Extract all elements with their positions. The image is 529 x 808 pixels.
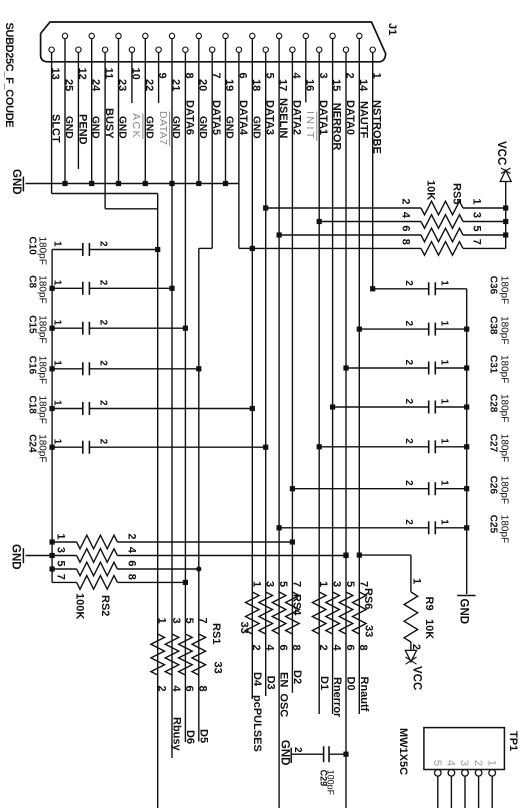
- svg-text:C15: C15: [27, 315, 38, 334]
- svg-text:5: 5: [431, 760, 443, 766]
- svg-text:C31: C31: [488, 355, 499, 374]
- svg-text:7: 7: [471, 239, 483, 245]
- svg-text:J1: J1: [386, 23, 398, 35]
- svg-text:VCC: VCC: [495, 141, 507, 165]
- svg-text:180pF: 180pF: [499, 355, 510, 383]
- svg-text:1: 1: [317, 581, 329, 587]
- svg-text:6: 6: [183, 686, 195, 692]
- svg-text:D6: D6: [184, 730, 196, 744]
- svg-text:5: 5: [471, 225, 483, 231]
- svg-text:DATA1: DATA1: [317, 100, 329, 135]
- svg-text:2: 2: [98, 320, 109, 326]
- svg-text:8: 8: [357, 645, 369, 651]
- svg-text:1: 1: [156, 618, 168, 624]
- svg-text:1: 1: [439, 321, 450, 327]
- svg-text:GND: GND: [10, 544, 22, 570]
- svg-text:C8: C8: [27, 275, 38, 288]
- svg-text:1: 1: [52, 320, 63, 326]
- svg-text:2: 2: [98, 280, 109, 286]
- svg-text:3: 3: [264, 581, 276, 587]
- svg-text:C16: C16: [27, 356, 38, 375]
- svg-text:NERROR: NERROR: [331, 103, 343, 151]
- svg-text:6: 6: [126, 560, 138, 566]
- svg-text:5: 5: [344, 581, 356, 587]
- svg-text:5: 5: [277, 581, 289, 587]
- svg-text:8: 8: [400, 239, 412, 245]
- svg-text:D5: D5: [197, 729, 209, 743]
- svg-text:100pF: 100pF: [326, 770, 336, 796]
- svg-text:3: 3: [458, 760, 470, 766]
- svg-text:Rbusy: Rbusy: [171, 717, 183, 752]
- svg-text:SUBD25C_F_COUDE: SUBD25C_F_COUDE: [3, 23, 15, 128]
- svg-text:4: 4: [264, 645, 276, 652]
- svg-text:GND: GND: [224, 116, 235, 139]
- svg-text:6: 6: [400, 225, 412, 231]
- svg-text:5: 5: [183, 618, 195, 624]
- svg-text:DATA6: DATA6: [183, 100, 195, 135]
- svg-text:BUSY: BUSY: [103, 108, 115, 139]
- svg-text:1: 1: [439, 480, 450, 486]
- svg-text:8: 8: [126, 574, 138, 580]
- svg-text:100K: 100K: [74, 593, 86, 619]
- svg-text:C36: C36: [488, 276, 499, 295]
- svg-text:2: 2: [98, 400, 109, 406]
- svg-text:RS4: RS4: [291, 594, 303, 616]
- svg-text:6: 6: [344, 645, 356, 651]
- svg-text:1: 1: [411, 578, 423, 584]
- svg-text:4: 4: [330, 645, 342, 652]
- svg-text:NSTROBE: NSTROBE: [371, 100, 383, 154]
- svg-text:GND: GND: [143, 116, 154, 139]
- svg-text:GND: GND: [170, 116, 181, 139]
- svg-text:7: 7: [290, 581, 302, 587]
- svg-text:2: 2: [98, 360, 109, 366]
- svg-text:10K: 10K: [423, 619, 435, 639]
- svg-text:GND: GND: [10, 169, 22, 195]
- svg-text:180pF: 180pF: [499, 515, 510, 543]
- svg-text:DATA0: DATA0: [344, 100, 356, 135]
- svg-text:4: 4: [445, 760, 457, 766]
- svg-text:GND: GND: [90, 116, 101, 139]
- svg-text:10K: 10K: [425, 180, 437, 200]
- svg-text:2: 2: [403, 321, 414, 327]
- svg-text:33: 33: [212, 662, 224, 674]
- svg-text:GND: GND: [63, 116, 74, 139]
- svg-text:33: 33: [363, 625, 375, 637]
- svg-text:GND: GND: [197, 116, 208, 139]
- svg-text:DATA3: DATA3: [264, 100, 276, 135]
- svg-text:1: 1: [250, 581, 262, 587]
- svg-text:DATA4: DATA4: [237, 100, 249, 136]
- svg-text:C24: C24: [27, 434, 38, 453]
- svg-text:D3: D3: [264, 676, 276, 690]
- svg-text:EN_OSC: EN_OSC: [278, 672, 290, 717]
- svg-text:180pF: 180pF: [499, 276, 510, 304]
- svg-text:C26: C26: [488, 476, 499, 495]
- svg-text:2: 2: [403, 280, 414, 286]
- svg-text:2: 2: [126, 533, 138, 539]
- svg-text:7: 7: [197, 618, 209, 624]
- svg-text:GND: GND: [458, 599, 470, 625]
- svg-text:5: 5: [55, 560, 67, 566]
- svg-text:33: 33: [238, 622, 250, 634]
- svg-text:C25: C25: [488, 515, 499, 534]
- svg-text:1: 1: [439, 359, 450, 365]
- svg-text:180pF: 180pF: [499, 394, 510, 422]
- svg-text:1: 1: [439, 398, 450, 404]
- svg-text:180pF: 180pF: [499, 434, 510, 462]
- svg-text:TP1: TP1: [507, 731, 519, 751]
- svg-text:2: 2: [317, 645, 329, 651]
- svg-text:DATA7: DATA7: [157, 111, 169, 145]
- svg-text:C38: C38: [488, 316, 499, 335]
- svg-text:D2: D2: [291, 670, 303, 684]
- svg-text:C27: C27: [488, 434, 499, 453]
- svg-text:2: 2: [403, 359, 414, 365]
- svg-text:2: 2: [403, 480, 414, 486]
- svg-text:1: 1: [52, 400, 63, 406]
- svg-text:NAUTF: NAUTF: [357, 101, 369, 139]
- svg-text:4: 4: [400, 212, 412, 219]
- svg-text:6: 6: [277, 645, 289, 651]
- svg-text:NSELIN: NSELIN: [277, 98, 289, 138]
- svg-text:2: 2: [98, 241, 109, 247]
- svg-text:MW1X5C: MW1X5C: [397, 728, 409, 775]
- svg-text:180pF: 180pF: [499, 476, 510, 504]
- svg-text:2: 2: [403, 438, 414, 444]
- svg-text:1: 1: [52, 280, 63, 286]
- svg-text:R9: R9: [423, 597, 435, 611]
- svg-text:1: 1: [439, 438, 450, 444]
- svg-text:1: 1: [471, 198, 483, 204]
- svg-text:GND: GND: [250, 116, 261, 139]
- svg-text:2: 2: [410, 644, 422, 650]
- svg-text:180pF: 180pF: [37, 237, 48, 265]
- svg-text:GND: GND: [117, 116, 128, 139]
- svg-text:Rnerror: Rnerror: [331, 677, 343, 718]
- svg-text:2: 2: [472, 760, 484, 766]
- svg-text:RS5: RS5: [451, 183, 463, 204]
- svg-text:180pF: 180pF: [499, 316, 510, 344]
- svg-text:8: 8: [290, 645, 302, 651]
- svg-text:1: 1: [52, 241, 63, 247]
- svg-text:180pF: 180pF: [37, 315, 48, 343]
- svg-text:DATA5: DATA5: [210, 100, 222, 135]
- svg-text:180pF: 180pF: [37, 356, 48, 384]
- svg-text:2: 2: [403, 519, 414, 525]
- svg-text:7: 7: [55, 574, 67, 580]
- svg-text:1: 1: [439, 519, 450, 525]
- svg-text:RS1: RS1: [210, 623, 222, 644]
- svg-text:1: 1: [52, 439, 63, 445]
- svg-text:VCC: VCC: [411, 666, 423, 690]
- svg-text:180pF: 180pF: [37, 434, 48, 462]
- svg-text:180pF: 180pF: [37, 396, 48, 424]
- svg-text:C10: C10: [27, 237, 38, 256]
- svg-text:D4: D4: [251, 672, 263, 687]
- svg-text:4: 4: [126, 547, 138, 554]
- svg-text:3: 3: [471, 212, 483, 218]
- svg-text:ACK: ACK: [130, 113, 142, 139]
- svg-text:3: 3: [55, 547, 67, 553]
- svg-text:180pF: 180pF: [37, 275, 48, 303]
- svg-text:RS2: RS2: [99, 595, 111, 616]
- svg-text:8: 8: [197, 686, 209, 692]
- svg-text:1: 1: [55, 533, 67, 539]
- svg-text:SLCT: SLCT: [50, 114, 62, 143]
- svg-text:3: 3: [331, 581, 343, 587]
- svg-text:PEND: PEND: [76, 114, 88, 145]
- svg-text:2: 2: [292, 747, 303, 753]
- svg-text:7: 7: [357, 581, 369, 587]
- svg-text:2: 2: [403, 398, 414, 404]
- svg-text:2: 2: [250, 645, 262, 651]
- svg-text:1: 1: [52, 360, 63, 366]
- svg-text:D0: D0: [345, 677, 357, 691]
- svg-text:INIT: INIT: [304, 111, 316, 141]
- svg-text:RS6: RS6: [362, 588, 374, 609]
- svg-text:pcPULSES: pcPULSES: [251, 695, 263, 752]
- svg-text:2: 2: [156, 686, 168, 692]
- svg-text:DATA2: DATA2: [290, 100, 302, 135]
- svg-text:4: 4: [170, 686, 182, 693]
- svg-text:GND: GND: [279, 740, 291, 766]
- svg-text:1: 1: [439, 280, 450, 286]
- svg-text:3: 3: [170, 618, 182, 624]
- svg-text:2: 2: [98, 439, 109, 445]
- svg-text:2: 2: [400, 198, 412, 204]
- svg-text:1: 1: [485, 760, 497, 766]
- svg-text:C28: C28: [488, 394, 499, 413]
- svg-text:Rnautf: Rnautf: [358, 677, 370, 712]
- svg-text:C18: C18: [27, 396, 38, 415]
- svg-text:D1: D1: [318, 676, 330, 690]
